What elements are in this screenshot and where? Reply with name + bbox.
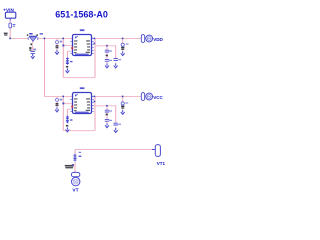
svg-text:651-1568-A0: 651-1568-A0 bbox=[55, 10, 108, 20]
svg-text:+VIN: +VIN bbox=[3, 7, 14, 12]
svg-text:VCC: VCC bbox=[153, 95, 163, 100]
svg-text:VT: VT bbox=[72, 188, 78, 194]
svg-text:VT1: VT1 bbox=[157, 161, 166, 166]
svg-text:VDD: VDD bbox=[153, 37, 163, 42]
